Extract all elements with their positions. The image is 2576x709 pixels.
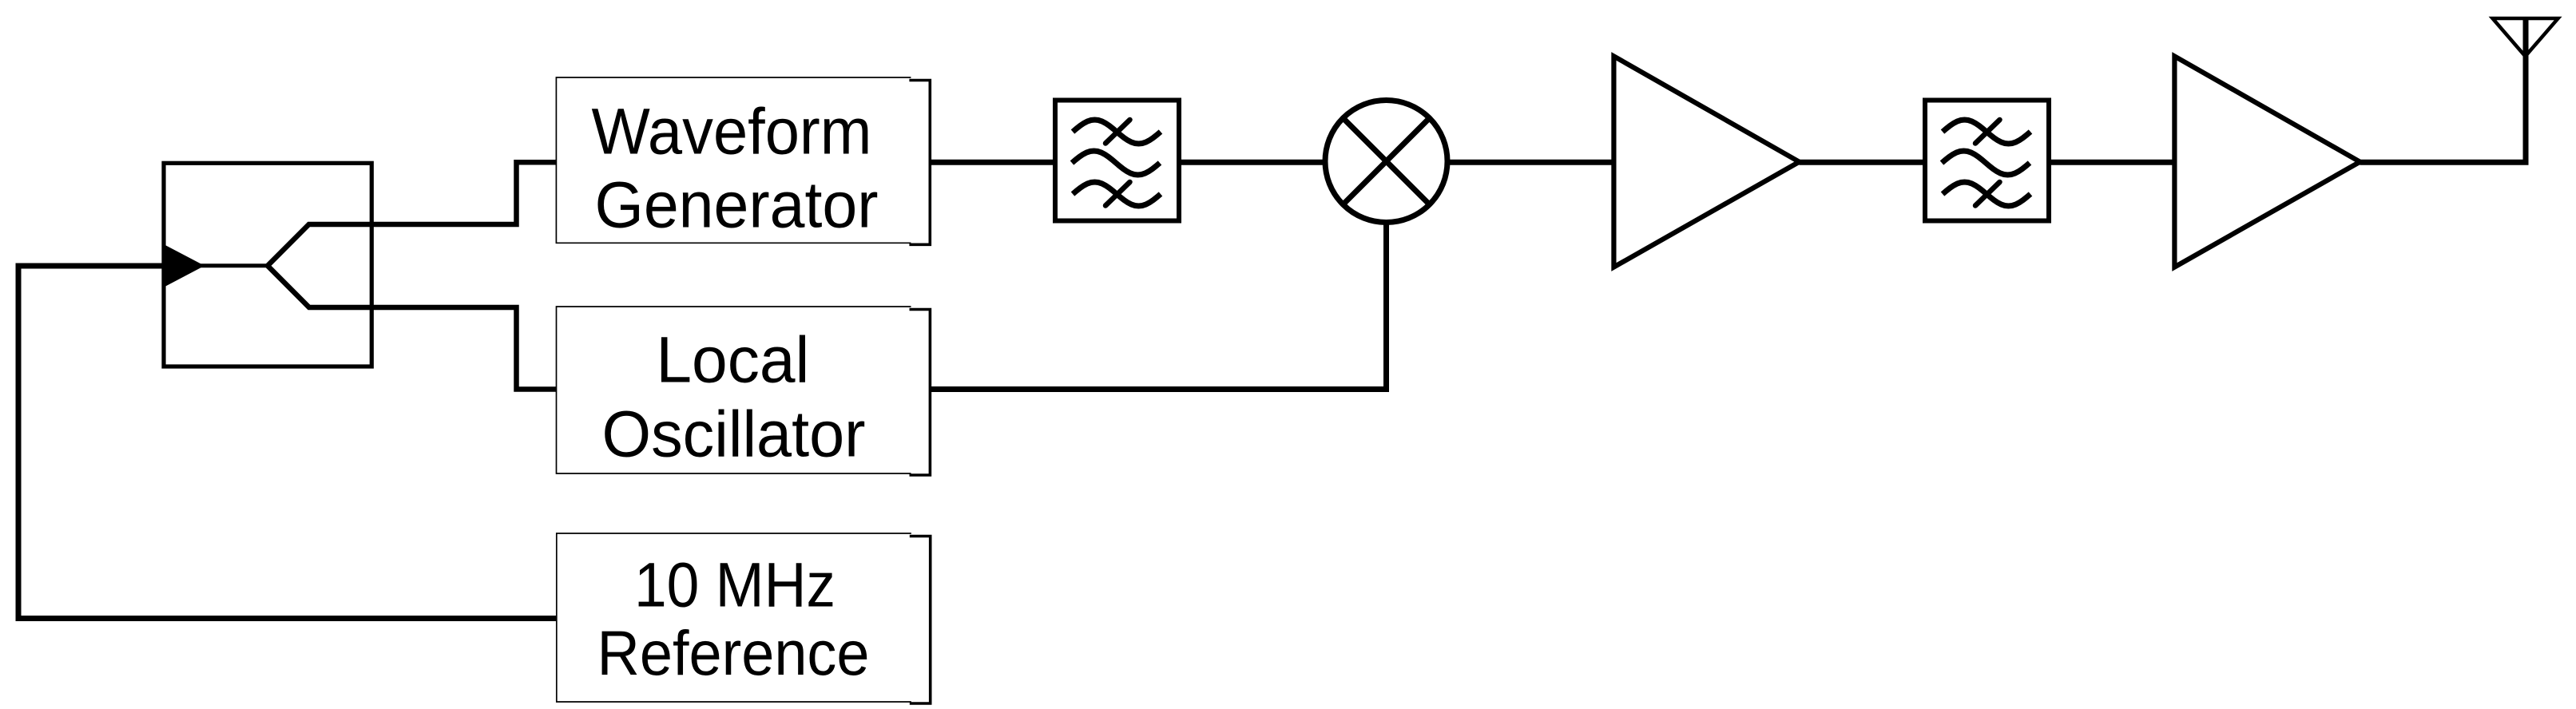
splitter lower branch arm and wire to Local Oscillator bbox=[268, 266, 557, 390]
filter FL1 lower wave slash bbox=[1105, 182, 1130, 206]
filter FL2 upper wave slash bbox=[1975, 120, 2000, 144]
svg-text:10 MHz: 10 MHz bbox=[634, 550, 836, 620]
block: Waveform Generator box thick right edge bbox=[909, 81, 930, 245]
power splitter U1 box bbox=[164, 163, 371, 366]
mixer MX1 circle bbox=[1325, 101, 1447, 223]
wire: filter FL2 to amplifier A2 bbox=[2049, 160, 2177, 165]
block: 10 MHz Reference box (thin outline) bbox=[557, 533, 911, 702]
antenna ANT1 bbox=[2493, 18, 2558, 57]
block: Waveform Generator box (thin outline) bbox=[556, 77, 911, 243]
mixer MX1 cross line 2 bbox=[1343, 118, 1429, 204]
mixer MX1 cross line 1 bbox=[1343, 118, 1429, 204]
svg-text:Reference: Reference bbox=[597, 618, 870, 688]
wire: feedback from 10 MHz Reference output left and up to splitter input bbox=[18, 266, 557, 619]
filter FL2 lower wave slash bbox=[1975, 182, 2000, 206]
splitter upper branch arm and wire to Waveform Generator bbox=[268, 162, 557, 265]
wire: amplifier A2 to antenna bbox=[2360, 17, 2526, 162]
filter FL1 middle wave bbox=[1072, 151, 1160, 175]
block: Local Oscillator box (thin outline) bbox=[557, 307, 911, 473]
filter FL2 lower wave (crossed) bbox=[1943, 182, 2030, 206]
band-pass filter FL2 box bbox=[1925, 101, 2049, 221]
splitter U1 input stem bbox=[164, 263, 268, 267]
svg-text:Waveform: Waveform bbox=[592, 96, 872, 168]
wire: mixer MX1 to amplifier A1 bbox=[1447, 160, 1616, 165]
band-pass filter FL1 box bbox=[1055, 101, 1179, 221]
filter FL1 lower wave (crossed) bbox=[1073, 182, 1161, 206]
filter FL1 upper wave slash bbox=[1105, 120, 1130, 144]
wire: filter FL1 to mixer MX1 bbox=[1179, 160, 1328, 165]
svg-text:Oscillator: Oscillator bbox=[602, 398, 866, 471]
filter FL1 upper wave (crossed) bbox=[1073, 120, 1161, 144]
amplifier A1 bbox=[1613, 56, 1799, 267]
amplifier A2 bbox=[2174, 56, 2360, 267]
block: 10 MHz Reference box thick right edge bbox=[910, 537, 931, 704]
svg-text:Generator: Generator bbox=[595, 168, 879, 241]
filter FL2 upper wave (crossed) bbox=[1943, 120, 2030, 144]
svg-text:Local: Local bbox=[656, 324, 809, 397]
block: Local Oscillator box thick right edge bbox=[910, 310, 931, 476]
wire: Local Oscillator to mixer LO port bbox=[930, 224, 1386, 390]
wire: Waveform Generator to filter FL1 bbox=[930, 160, 1057, 165]
wire: amplifier A1 to filter FL2 bbox=[1800, 160, 1928, 165]
filter FL2 middle wave bbox=[1942, 151, 2030, 175]
splitter U1 input arrowhead bbox=[163, 244, 204, 288]
